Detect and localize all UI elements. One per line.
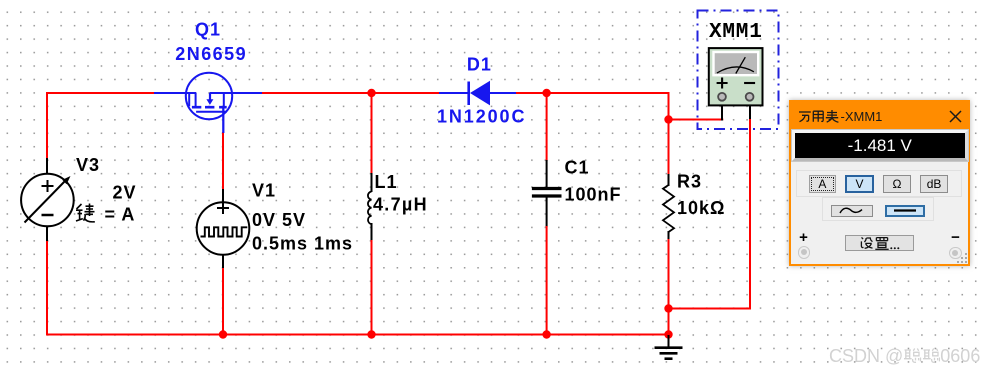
title text biao — [825, 110, 838, 122]
inductor L1 — [368, 192, 372, 225]
wire XMM1 plus lead red — [669, 119, 724, 121]
svg-text:L1: L1 — [375, 172, 398, 192]
svg-text:0.5ms 1ms: 0.5ms 1ms — [252, 234, 353, 254]
wire gate blue segment — [154, 92, 196, 94]
dialog button A — [809, 175, 837, 194]
wire V3 top vertical red — [46, 92, 48, 159]
svg-text:-XMM1: -XMM1 — [840, 109, 882, 124]
instrument XMM1 icon — [698, 11, 779, 130]
wire R3 bottom red — [668, 239, 670, 336]
dialog button line selected — [885, 205, 926, 217]
XMM1 selection box — [698, 11, 779, 130]
button text dots — [890, 247, 892, 249]
svg-text:100nF: 100nF — [565, 185, 622, 205]
wire V3 top black lead — [46, 158, 48, 174]
svg-text:Q1: Q1 — [195, 20, 221, 40]
ground — [655, 335, 683, 359]
wire V1 source blue stub — [222, 107, 224, 133]
dialog resize grip — [955, 251, 969, 265]
wire L1 bottom red — [371, 240, 373, 335]
resistor R3 — [663, 185, 674, 232]
junction node L1 bottom — [367, 330, 375, 338]
dialog minus terminal — [949, 247, 962, 260]
wire XMM1 minus lead black stub — [749, 98, 751, 119]
button text zhi — [875, 238, 888, 250]
svg-text:XMM1: XMM1 — [709, 21, 763, 44]
watermark CSDN — [829, 346, 980, 367]
dialog minus terminal label — [949, 229, 963, 246]
wire bottom rail red — [46, 334, 669, 336]
svg-text:2V: 2V — [113, 183, 137, 203]
dialog plus terminal label — [797, 229, 811, 246]
V3 arrowhead — [62, 176, 70, 184]
wire V1 bottom black lead — [222, 254, 224, 269]
button text she — [861, 237, 872, 248]
XMM1 minus terminal — [746, 93, 754, 101]
svg-text:V3: V3 — [76, 155, 100, 175]
dialog group box 1 — [796, 170, 962, 197]
voltage source V3 — [21, 174, 74, 227]
XMM1 needle — [736, 57, 746, 73]
wire L1 top black lead — [371, 173, 373, 192]
wire C1 bottom black lead — [546, 197, 548, 227]
multimeter dialog XMM1 — [789, 100, 970, 266]
XMM1 plus mark — [717, 78, 728, 89]
wire C1 top black lead — [546, 160, 548, 187]
svg-text:R3: R3 — [677, 172, 702, 192]
wire V1 bottom red — [222, 268, 224, 335]
svg-text:2N6659: 2N6659 — [175, 44, 247, 64]
junction node minus lead — [664, 304, 672, 312]
dialog group box 2 — [822, 197, 935, 221]
wire XMM1 plus lead black stub — [721, 98, 723, 121]
junction node L1 top — [367, 89, 375, 97]
svg-text:4.7µH: 4.7µH — [373, 195, 428, 215]
wire L1 top red — [371, 92, 373, 174]
junction node ground — [664, 330, 672, 338]
dialog button V selected — [845, 175, 873, 194]
wire XMM1 minus lead red — [669, 118, 751, 309]
dialog title bar — [791, 102, 968, 130]
junction node plus lead — [664, 115, 672, 123]
dialog button sine — [831, 205, 873, 217]
wire top-left horizontal red V3 to Q1 gate — [46, 92, 154, 94]
Q1 arrow — [206, 99, 213, 105]
svg-text:C1: C1 — [565, 158, 590, 178]
junction node C1 bottom — [542, 330, 550, 338]
svg-text:0V 5V: 0V 5V — [252, 210, 306, 230]
wire top right red D1 to corner — [516, 93, 669, 121]
dialog button dB — [920, 175, 948, 194]
dialog button shezhi — [845, 235, 915, 251]
transistor Q1 MOSFET — [186, 73, 232, 133]
XMM1 body — [709, 48, 763, 105]
XMM1 plus terminal — [718, 93, 726, 101]
wire R3 bottom black lead — [668, 231, 670, 240]
svg-text:V1: V1 — [252, 181, 276, 201]
wire Q1 drain blue segment — [210, 92, 263, 94]
junction node C1 top — [542, 89, 550, 97]
close X — [950, 111, 961, 122]
wire R3 top red — [668, 119, 670, 175]
dialog display — [792, 130, 969, 161]
wire V3 bottom vertical red — [46, 241, 48, 336]
capacitor C1 — [532, 189, 562, 197]
wire D1 anode blue lead — [439, 92, 468, 94]
wire D1 cathode blue lead — [490, 92, 517, 94]
wire V1 top black lead — [222, 189, 224, 203]
wire C1 bottom red — [546, 226, 548, 335]
svg-text:= A: = A — [105, 205, 136, 225]
wire top middle red Q1 to D1 — [262, 92, 440, 94]
title text yong — [813, 111, 823, 122]
wire V3 bottom black lead — [46, 226, 48, 242]
wire C1 top red — [546, 92, 548, 161]
diode D1 — [467, 82, 470, 106]
junction node V1 bottom — [219, 330, 227, 338]
dialog button Ohm — [883, 175, 911, 194]
XMM1 scale arc — [717, 67, 754, 73]
svg-text:10kΩ: 10kΩ — [677, 198, 725, 218]
title text wan — [799, 112, 811, 122]
dialog plus terminal — [798, 246, 811, 259]
XMM1 screen — [714, 52, 759, 75]
XMM1 minus mark — [744, 82, 755, 84]
wire L1 bottom black lead — [371, 223, 373, 241]
pulse source V1 — [197, 202, 250, 255]
label jian (key) glyph — [76, 204, 95, 222]
wire V1 top red — [222, 132, 224, 190]
svg-text:1N1200C: 1N1200C — [437, 107, 526, 127]
svg-text:D1: D1 — [467, 55, 492, 75]
wire R3 top black lead — [668, 174, 670, 186]
